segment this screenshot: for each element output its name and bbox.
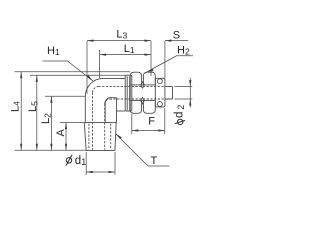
nut across-flats upper line [130, 84, 155, 86]
wire: horizontal leg bottom edge [111, 97, 117, 99]
S arrow (points left to collar face) [165, 40, 172, 42]
F arrows [132, 129, 139, 131]
outer corner arc [85, 78, 103, 96]
ext line A top [60, 122, 84, 124]
nut chamfer diamond bottom [141, 97, 145, 103]
label phi d2 rotated [175, 119, 185, 124]
bore hidden corner arc outer [93, 87, 99, 93]
ledge under body hex [117, 110, 126, 112]
ext line tube end plane x=151 [150, 41, 152, 76]
ext line L2 top [45, 95, 85, 97]
svg-text:H2: H2 [177, 45, 190, 57]
dim L2 line [50, 96, 52, 150]
dim phi d1 line [86, 171, 115, 173]
sleeve dot upper [158, 79, 163, 84]
svg-text:L1: L1 [124, 43, 135, 55]
svg-text:F: F [148, 116, 155, 128]
svg-text:L3: L3 [116, 28, 127, 40]
L2 arrows [50, 96, 52, 103]
tube stub [165, 87, 173, 99]
dim L4 line [20, 72, 22, 151]
ext line back of elbow (L3 left) [86, 41, 88, 94]
sleeve dot lower [158, 102, 163, 107]
dim F line [132, 130, 165, 132]
dim A line [65, 123, 67, 151]
L5 arrows [36, 75, 38, 82]
dim S tail line [165, 40, 188, 42]
ext line collar face x=164.9 [164, 41, 166, 78]
dim L5 line [36, 75, 38, 150]
nut chamfer diamond top [141, 82, 145, 88]
ext line leg axis (L1 left) [99, 50, 101, 78]
H1 leader arrow [87, 75, 93, 81]
nut collar [155, 78, 165, 107]
wire: vertical leg right edge [104, 103, 106, 123]
arrowheads [20, 40, 191, 174]
wire: vertical leg left edge [84, 96, 86, 122]
svg-text:L5: L5 [27, 101, 39, 112]
ext line L5 top [30, 74, 125, 76]
nut lower-left lobe [130, 101, 141, 114]
dim L1 line [100, 54, 151, 56]
H2 leader arrow [147, 69, 154, 72]
phi d2 arrows [189, 80, 191, 87]
L4 arrows [20, 72, 22, 79]
svg-text:T: T [151, 155, 158, 167]
leader T [116, 134, 170, 167]
A arrows [65, 123, 67, 130]
step drop to shoulder [116, 98, 118, 123]
L3 arrows [87, 40, 94, 42]
nut lower-right lobe [143, 101, 155, 114]
svg-text:d2: d2 [174, 105, 186, 118]
dim L3 line [87, 40, 151, 42]
leader H2 [147, 56, 193, 72]
elbow body outline [85, 78, 125, 122]
male taper thread [84, 123, 116, 151]
svg-text:A: A [55, 129, 67, 137]
svg-text:d1: d1 [75, 155, 86, 167]
wire: horizontal leg top edge [103, 77, 125, 79]
nut left face [129, 85, 131, 101]
phi d1 arrows [86, 171, 93, 173]
nut upper-left lobe [130, 72, 141, 85]
bore hidden lines vertical leg [92, 93, 94, 150]
ext line bottom common [15, 149, 87, 151]
svg-text:L4: L4 [10, 101, 22, 112]
ext lines F [131, 114, 133, 134]
T leader arrow [116, 134, 122, 140]
ext line L4 top [15, 71, 131, 73]
tube hidden lines in nut [99, 86, 165, 88]
leader H1 [43, 61, 94, 81]
thread shoulder [84, 122, 117, 124]
svg-text:H1: H1 [47, 45, 60, 57]
inner corner fillet arc [105, 98, 110, 103]
svg-text:L2: L2 [40, 113, 52, 124]
ext lines phi d1 [85, 152, 87, 175]
label phi d1 [66, 155, 72, 166]
body hex cap [125, 75, 132, 111]
bore hidden corner arc inner [105, 99, 110, 104]
ext lines phi d2 [175, 86, 193, 88]
nut upper-right lobe [143, 72, 155, 85]
L1 arrows [100, 54, 107, 56]
nut across-flats lower line [130, 100, 155, 102]
dim phi d2 line [189, 78, 191, 108]
svg-text:S: S [173, 29, 180, 41]
